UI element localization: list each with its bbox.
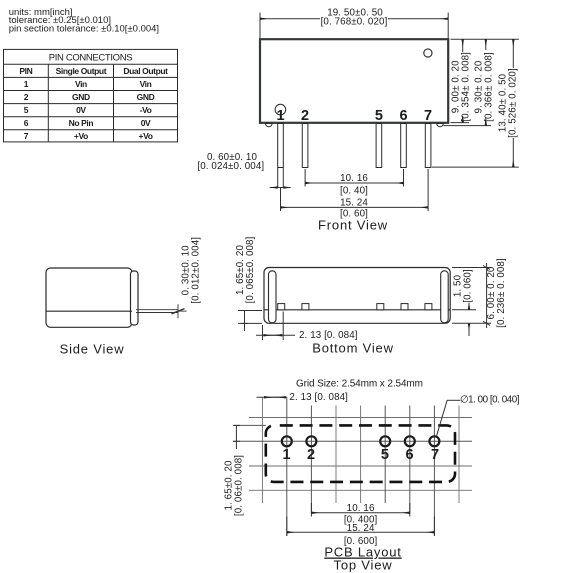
pcb dim 2.13 bbox=[257, 396, 287, 398]
svg-text:[0. 526± 0. 020]: [0. 526± 0. 020] bbox=[508, 68, 519, 138]
svg-text:15. 24: 15. 24 bbox=[347, 523, 375, 534]
svg-text:Vin: Vin bbox=[75, 79, 87, 89]
pads bbox=[282, 436, 440, 446]
svg-text:[0. 012±0. 004]: [0. 012±0. 004] bbox=[190, 237, 201, 304]
pad center lines bbox=[233, 397, 472, 536]
dim 9.30 bbox=[485, 39, 487, 125]
svg-text:[0. 354± 0. 008]: [0. 354± 0. 008] bbox=[461, 52, 472, 122]
front view corner circle bbox=[424, 49, 432, 57]
svg-text:[0. 366± 0. 008]: [0. 366± 0. 008] bbox=[484, 52, 495, 122]
pin 1 marker circle bbox=[275, 104, 286, 115]
front view pins bbox=[278, 124, 431, 168]
side view seam bbox=[46, 310, 132, 312]
svg-text:Top View: Top View bbox=[334, 558, 393, 573]
svg-text:Single Output: Single Output bbox=[56, 66, 107, 76]
svg-text:15. 24: 15. 24 bbox=[340, 198, 368, 209]
pcb dim dia 1.00 bbox=[437, 400, 461, 436]
svg-text:7: 7 bbox=[24, 131, 29, 141]
svg-text:GND: GND bbox=[137, 92, 155, 102]
pad numbers bbox=[282, 447, 439, 463]
svg-text:0V: 0V bbox=[76, 105, 86, 115]
pin connections table bbox=[4, 49, 178, 141]
side view pin bbox=[136, 304, 187, 318]
svg-text:PIN: PIN bbox=[19, 66, 32, 76]
svg-text:2. 13 [0. 084]: 2. 13 [0. 084] bbox=[289, 392, 348, 403]
svg-text:5: 5 bbox=[375, 108, 383, 124]
dashed module outline bbox=[266, 425, 455, 482]
dim 10.16 front bbox=[305, 169, 403, 187]
svg-text:Bottom View: Bottom View bbox=[312, 341, 394, 356]
svg-text:10. 16: 10. 16 bbox=[340, 173, 368, 184]
svg-text:Front View: Front View bbox=[318, 218, 388, 233]
svg-text:7: 7 bbox=[424, 108, 432, 124]
svg-text:+Vo: +Vo bbox=[139, 131, 153, 141]
dim 19.50 text bbox=[320, 15, 388, 26]
svg-text:2: 2 bbox=[301, 108, 309, 124]
side view body bbox=[46, 268, 138, 327]
bottom view dim 1.65 left bbox=[238, 311, 262, 332]
svg-text:Grid Size: 2.54mm x 2.54mm: Grid Size: 2.54mm x 2.54mm bbox=[296, 379, 423, 390]
svg-text:0V: 0V bbox=[141, 118, 151, 128]
bottom view dim 2.13 bbox=[256, 312, 295, 341]
svg-text:1: 1 bbox=[24, 79, 29, 89]
svg-text:[0. 024±0. 004]: [0. 024±0. 004] bbox=[197, 161, 264, 172]
dim 9.30 text bbox=[477, 50, 497, 118]
svg-text:[0. 065±0. 008]: [0. 065±0. 008] bbox=[245, 236, 256, 303]
pcb dim 10.16 bbox=[311, 503, 409, 517]
svg-text:PIN CONNECTIONS: PIN CONNECTIONS bbox=[49, 52, 132, 63]
pcb dim 1.65 bbox=[233, 425, 240, 449]
pcb dim 15.24 bbox=[287, 517, 435, 537]
front view body bbox=[260, 39, 448, 123]
dim 15.24 front bbox=[281, 169, 429, 211]
svg-text:+Vo: +Vo bbox=[74, 131, 88, 141]
dim 13.40 text bbox=[500, 68, 520, 138]
svg-text:-Vo: -Vo bbox=[140, 105, 152, 115]
svg-text:pin section tolerance: ±0.10[±: pin section tolerance: ±0.10[±0.004] bbox=[9, 23, 159, 34]
svg-text:2: 2 bbox=[307, 447, 315, 463]
svg-text:5: 5 bbox=[381, 447, 389, 463]
svg-text:6: 6 bbox=[24, 118, 29, 128]
dim 19.50 top bbox=[260, 13, 448, 39]
pin number labels bbox=[276, 108, 432, 124]
dim 13.40 bbox=[512, 39, 514, 167]
svg-text:10. 16: 10. 16 bbox=[347, 503, 375, 514]
front view standoff bumps bbox=[266, 124, 273, 127]
svg-text:6: 6 bbox=[399, 108, 407, 124]
bottom view pin slots bbox=[269, 271, 277, 323]
dim 9.00 text bbox=[452, 52, 473, 116]
grid bbox=[249, 397, 472, 503]
svg-text:Side View: Side View bbox=[60, 342, 125, 357]
svg-text:GND: GND bbox=[72, 92, 90, 102]
svg-text:[0. 060]: [0. 060] bbox=[463, 269, 474, 303]
svg-text:[0. 768±0. 020]: [0. 768±0. 020] bbox=[321, 17, 388, 28]
bottom view dim 6.00 right bbox=[452, 263, 491, 328]
svg-text:[0. 40]: [0. 40] bbox=[340, 185, 368, 196]
bottom view pin stubs bbox=[278, 304, 432, 310]
svg-text:7: 7 bbox=[431, 447, 439, 463]
svg-text:2: 2 bbox=[24, 92, 29, 102]
bottom view body bbox=[264, 268, 450, 324]
svg-text:6: 6 bbox=[405, 447, 413, 463]
svg-text:2. 13 [0. 084]: 2. 13 [0. 084] bbox=[299, 330, 358, 341]
right side dims bbox=[432, 39, 519, 167]
svg-text:Dual Output: Dual Output bbox=[123, 66, 168, 76]
svg-text:[0. 06±0. 008]: [0. 06±0. 008] bbox=[234, 455, 245, 516]
svg-text:Vin: Vin bbox=[140, 79, 152, 89]
svg-text:[0. 236± 0. 008]: [0. 236± 0. 008] bbox=[496, 258, 507, 328]
svg-text:∅1. 00 [0. 040]: ∅1. 00 [0. 040] bbox=[460, 395, 520, 406]
svg-text:No Pin: No Pin bbox=[69, 118, 94, 128]
dim 9.00 bbox=[462, 39, 464, 122]
svg-text:1: 1 bbox=[276, 108, 284, 124]
svg-text:5: 5 bbox=[24, 105, 29, 115]
svg-text:1: 1 bbox=[282, 447, 290, 463]
notes text block bbox=[9, 7, 159, 34]
bottom view dim 1.50 right bbox=[452, 303, 476, 336]
